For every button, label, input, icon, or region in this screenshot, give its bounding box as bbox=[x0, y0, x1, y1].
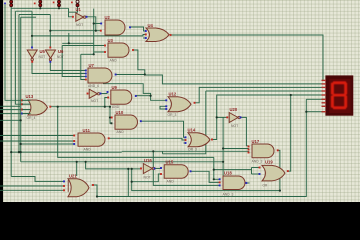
svg-text:OR: OR bbox=[263, 184, 268, 188]
svg-text:NOT: NOT bbox=[76, 23, 83, 27]
svg-text:NOT: NOT bbox=[91, 99, 98, 103]
svg-text:U14: U14 bbox=[188, 127, 196, 132]
svg-text:U3: U3 bbox=[108, 38, 114, 43]
svg-text:U9: U9 bbox=[112, 85, 118, 90]
svg-text:NOT: NOT bbox=[231, 124, 238, 128]
svg-text:AND: AND bbox=[84, 147, 92, 151]
svg-text:U2: U2 bbox=[105, 15, 111, 20]
svg-text:OR_4: OR_4 bbox=[27, 116, 36, 120]
svg-text:U19: U19 bbox=[265, 159, 273, 164]
svg-text:AND_3: AND_3 bbox=[223, 192, 234, 196]
svg-text:AND: AND bbox=[167, 179, 175, 183]
svg-text:AND: AND bbox=[112, 105, 120, 109]
svg-text:U18: U18 bbox=[224, 170, 232, 175]
svg-text:U11: U11 bbox=[83, 128, 91, 133]
svg-text:U4: U4 bbox=[148, 23, 154, 28]
svg-text:OR_3: OR_3 bbox=[188, 147, 197, 151]
svg-text:AND_4: AND_4 bbox=[88, 84, 99, 88]
svg-text:U1: U1 bbox=[76, 7, 82, 12]
svg-text:AND: AND bbox=[117, 130, 125, 134]
svg-text:U10: U10 bbox=[116, 110, 124, 115]
svg-text:U17: U17 bbox=[252, 139, 260, 144]
svg-text:NOT: NOT bbox=[144, 176, 151, 180]
svg-text:U21: U21 bbox=[69, 174, 77, 179]
svg-text:U5: U5 bbox=[40, 49, 46, 54]
svg-text:AND: AND bbox=[110, 58, 118, 62]
svg-text:U13: U13 bbox=[26, 94, 34, 99]
svg-text:U6: U6 bbox=[58, 49, 64, 54]
svg-text:OR_3: OR_3 bbox=[168, 113, 177, 117]
svg-text:U15: U15 bbox=[166, 159, 174, 164]
svg-text:U7: U7 bbox=[89, 63, 95, 68]
svg-text:U12: U12 bbox=[169, 91, 177, 96]
svg-text:U20: U20 bbox=[230, 107, 238, 112]
svg-text:NOT: NOT bbox=[57, 55, 64, 59]
svg-text:AND_3: AND_3 bbox=[252, 160, 263, 164]
svg-text:NOT: NOT bbox=[39, 55, 46, 59]
svg-text:U16: U16 bbox=[144, 158, 152, 163]
